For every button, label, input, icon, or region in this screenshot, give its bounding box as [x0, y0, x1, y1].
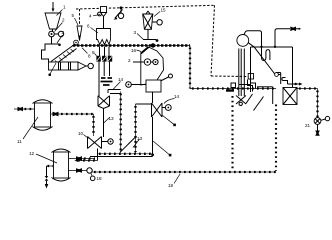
svg-text:21: 21	[305, 123, 311, 128]
node	[260, 46, 262, 48]
feeder 15 (crusher with X)	[143, 11, 153, 29]
mill 16 body	[141, 47, 164, 85]
flue duct beaded right	[297, 89, 318, 118]
belt head pulley	[74, 40, 79, 45]
bottom return duct (beaded)	[92, 171, 276, 173]
drum riser pipe	[244, 31, 262, 47]
boundary dashed branch left	[77, 9, 82, 41]
boundary dashed to furnace	[211, 75, 248, 78]
mill discharge box	[146, 74, 173, 92]
chute 3	[42, 44, 60, 62]
duct flange	[231, 83, 236, 88]
label 2	[55, 18, 66, 32]
tank 12 outlet upper	[69, 156, 96, 161]
wire mill box down to fan 14	[152, 92, 154, 103]
wires below gates	[99, 62, 110, 96]
duct B top connector	[136, 103, 152, 105]
steam valve	[290, 27, 301, 32]
steam drum	[237, 35, 249, 47]
burner zigzag feed	[248, 80, 256, 92]
fan 13 (ejector)	[98, 96, 110, 137]
leader dot lower right	[153, 141, 171, 156]
sampler 7 on dashed line	[114, 6, 124, 19]
motor of feeder 15	[153, 20, 163, 25]
rod chutes hopper6 to gates 8	[100, 47, 110, 57]
valve 21 (circle with cross)	[314, 116, 330, 124]
label 14	[164, 94, 180, 104]
label 5	[72, 13, 79, 25]
label 13b	[133, 136, 143, 148]
drain arrow below valve 21	[315, 124, 320, 135]
svg-text:2: 2	[62, 18, 65, 23]
air heater (box with X)	[283, 88, 297, 105]
steam outlet pipe	[275, 29, 290, 47]
drum diagonal feed	[248, 43, 274, 74]
tank 12 drain valve	[45, 166, 54, 189]
svg-text:12: 12	[29, 151, 35, 156]
fan 14 downcomer	[152, 117, 154, 157]
airlock 5	[98, 7, 107, 17]
fan 13 outlet duct	[108, 90, 121, 94]
dryer floor beaded	[97, 153, 153, 155]
node dot on chute	[58, 44, 61, 47]
svg-text:14: 14	[174, 94, 180, 99]
ash duct dotted right	[275, 105, 277, 172]
svg-text:11: 11	[17, 139, 22, 144]
valve 2 (star feeder circle)	[49, 31, 55, 37]
label 3	[57, 30, 65, 43]
burner inlet flange	[248, 74, 253, 80]
svg-text:18: 18	[168, 183, 174, 188]
svg-text:4: 4	[89, 14, 92, 19]
hopper 6	[97, 29, 111, 45]
fan 14	[152, 103, 163, 117]
label 14a	[113, 77, 124, 90]
label 1	[57, 5, 67, 16]
svg-text:18: 18	[97, 176, 103, 181]
furnace gas offtake	[257, 87, 273, 104]
label 8 leader to conveyor	[82, 48, 91, 59]
gates 8 (three dark boxes)	[96, 56, 112, 62]
svg-text:6: 6	[87, 24, 90, 29]
fan 10 motor	[102, 139, 114, 144]
svg-text:8: 8	[88, 54, 91, 59]
fan 10	[88, 137, 102, 149]
fan 14 motor	[162, 105, 171, 111]
wire valve2 to chute 3	[51, 37, 53, 44]
label 13	[104, 116, 114, 123]
tank 12 outlet lower	[69, 168, 95, 181]
ash duct dotted left	[231, 96, 233, 171]
tank 11 inlet pipe	[14, 107, 35, 112]
motor of valve 2	[54, 31, 63, 36]
svg-text:3: 3	[134, 30, 137, 35]
burner connector	[239, 84, 251, 86]
main duct: conveyor to furnace (beaded)	[190, 46, 276, 89]
svg-text:1: 1	[63, 5, 66, 10]
svg-text:5: 5	[72, 13, 75, 18]
tank 11	[33, 100, 53, 131]
downcomer tubes	[239, 49, 245, 97]
furnace ash chute diagonals	[246, 94, 264, 111]
label 9 gates	[92, 50, 97, 56]
svg-text:14: 14	[118, 77, 124, 82]
label 4	[89, 14, 100, 19]
label 11	[17, 117, 38, 144]
leader dot right of fan 14	[162, 115, 176, 126]
top boundary dashed line	[76, 5, 215, 9]
node at floor corner	[151, 153, 154, 156]
classifier motor circle	[126, 82, 146, 88]
flue gas exit arrow	[288, 83, 303, 86]
wire feeder15 down to conveyor	[143, 29, 158, 42]
circulation pump	[275, 73, 281, 77]
tank 11 outlet pipe to fan 10	[51, 112, 94, 136]
junction blob on conveyor at mill feed	[151, 43, 155, 47]
label 18b	[168, 174, 180, 188]
superheater loop	[262, 47, 270, 61]
label 6	[87, 24, 98, 34]
hopper 1	[45, 13, 61, 29]
node	[274, 46, 276, 48]
pipe duct dash-dot vertical A	[120, 92, 122, 153]
separator diagonal	[120, 136, 137, 152]
feed arrow into hopper 1	[52, 2, 55, 12]
dryer floor solid	[90, 156, 153, 158]
belt conveyor (inclined)	[51, 46, 77, 66]
svg-text:16: 16	[131, 48, 137, 53]
tiny note text	[101, 78, 113, 85]
label 16	[131, 48, 141, 53]
svg-text:9: 9	[92, 50, 95, 55]
main belt conveyor line (beaded)	[72, 45, 190, 47]
leader with dot below screw	[48, 63, 56, 76]
wire airlock5 to hopper 6	[103, 17, 105, 29]
fan 10 discharge to left arrow	[75, 149, 98, 163]
mill burner X	[226, 91, 246, 106]
svg-text:15: 15	[161, 8, 167, 13]
boundary dashed vertical	[211, 5, 215, 76]
svg-text:3: 3	[62, 30, 65, 35]
mill trunnion circle	[133, 59, 151, 65]
screw conveyor 4	[49, 62, 94, 70]
furnace casing	[251, 47, 293, 92]
svg-text:2: 2	[128, 58, 131, 63]
label 15	[154, 8, 166, 17]
svg-text:13: 13	[109, 116, 115, 121]
svg-text:13: 13	[137, 136, 143, 141]
mill motor	[151, 59, 158, 64]
pipe duct dash-dot vertical B	[135, 104, 137, 154]
tank 12	[52, 149, 71, 181]
svg-text:10: 10	[78, 131, 84, 136]
label 12	[29, 151, 57, 163]
label 10	[78, 131, 89, 139]
wire hopper1 to valve 2	[52, 29, 54, 31]
economizer bracket	[276, 73, 288, 85]
label 3b	[134, 30, 144, 40]
